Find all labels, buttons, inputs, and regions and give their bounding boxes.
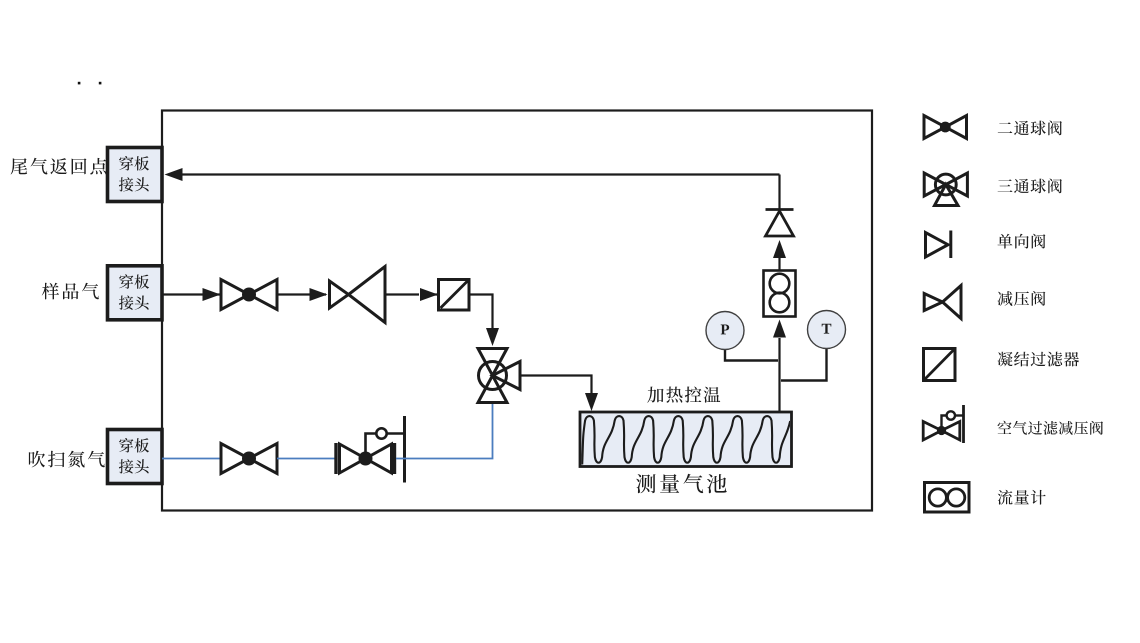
legend flow meter icon — [925, 483, 970, 513]
legend condensate filter icon — [924, 349, 956, 381]
wire flowmeter to check valve — [778, 258, 780, 271]
legend label 减压阀 — [998, 291, 1046, 306]
legend two-way ball valve icon — [924, 116, 967, 139]
wire riser above check valve — [778, 175, 780, 211]
legend label 空气过滤减压阀 — [998, 421, 1103, 435]
bulkhead connector 穿板接头 (purge-N2) — [108, 430, 163, 484]
wire PRV1 to arrow — [385, 293, 419, 295]
decor dots — [78, 82, 81, 85]
two-way ball valve V1 — [221, 280, 277, 310]
bulkhead connector 穿板接头 (tail-gas) — [108, 148, 163, 202]
legend three-way ball valve icon — [924, 173, 967, 206]
arrowhead into cell — [585, 393, 598, 411]
label 尾气返回点 — [11, 158, 107, 175]
legend air filter reducing valve icon — [923, 422, 960, 441]
check valve CV1 — [766, 208, 794, 211]
condensate filter F1 — [439, 280, 470, 311]
wire sample-gas from connector — [162, 293, 220, 295]
arrowhead sample 2 — [310, 288, 328, 301]
junction wire T-gauge — [781, 348, 827, 381]
wire cell riser — [778, 338, 780, 412]
measurement gas cell 测量气池 — [580, 412, 792, 467]
wire V2 to air-filter valve (blue) — [277, 458, 336, 460]
label 吹扫氮气 — [29, 451, 105, 468]
bulkhead connector 穿板接头 (sample-gas) — [108, 266, 163, 320]
air filter pressure reducing valve AFR1 — [334, 443, 337, 474]
label 样品气 — [42, 283, 99, 300]
legend label 三通球阀 — [998, 179, 1062, 194]
arrowhead into check valve — [773, 240, 786, 258]
enclosure cabinet border — [162, 111, 872, 511]
legend pressure reducing valve icon — [924, 286, 961, 319]
arrowhead sample 3 — [420, 288, 438, 301]
legend label 二通球阀 — [998, 121, 1062, 136]
legend label 凝结过滤器 — [998, 352, 1079, 367]
wire stub into filter — [420, 293, 438, 295]
arrowhead sample 1 — [203, 288, 221, 301]
label 加热控温 — [647, 387, 720, 403]
label 测量气池 — [636, 474, 727, 494]
temperature gauge T — [808, 311, 846, 349]
legend check valve icon — [926, 233, 949, 258]
arrowhead into tail-gas connector — [165, 168, 183, 181]
pressure gauge P — [706, 312, 744, 350]
wire three-way to cell elbow — [520, 376, 592, 394]
wire V1 to arrow — [277, 293, 326, 295]
legend label 单向阀 — [998, 234, 1046, 249]
pressure reducing valve PRV1 — [330, 267, 386, 323]
arrowhead into flow meter — [773, 320, 786, 338]
wire tail-gas return horizontal — [180, 173, 780, 175]
three-way ball valve V3 — [478, 349, 520, 403]
flow meter FM1 — [764, 271, 796, 317]
junction wire P-gauge — [725, 349, 778, 361]
wire filter to elbow down — [469, 295, 493, 330]
wire purge from connector (blue) — [162, 458, 221, 460]
legend label 流量计 — [998, 490, 1046, 505]
wire air-filter valve to riser (blue) — [396, 404, 493, 459]
arrowhead into three-way valve — [486, 328, 499, 346]
two-way ball valve V2 — [221, 444, 277, 474]
